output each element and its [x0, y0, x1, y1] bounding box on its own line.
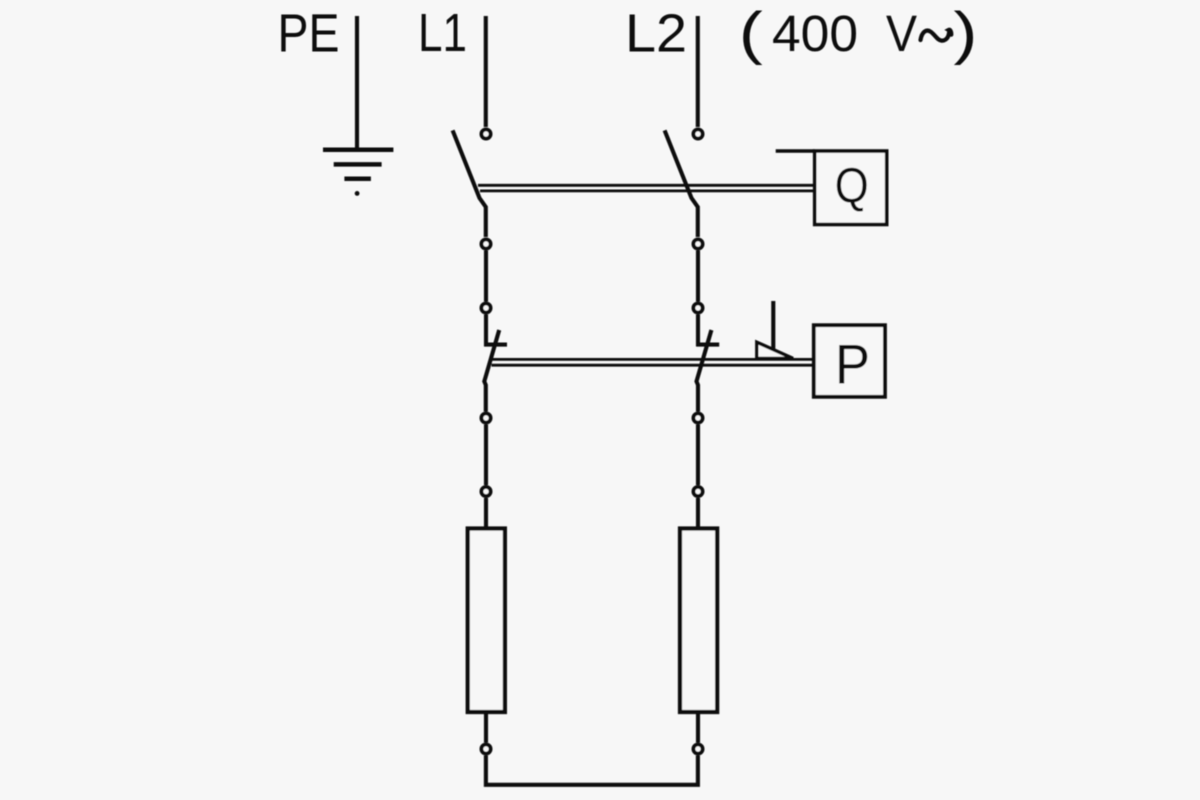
node below Q pole L1	[481, 239, 490, 248]
node L2 terminal	[693, 129, 702, 138]
switch Q pole L1 blade	[453, 130, 486, 237]
wire	[484, 425, 488, 486]
actuator stem	[771, 301, 775, 349]
wire	[696, 315, 700, 347]
svg-text:V: V	[886, 5, 917, 62]
contact P pole L1 seat bar	[484, 343, 507, 347]
svg-text:(: (	[739, 1, 763, 66]
svg-text:): )	[954, 1, 978, 66]
node below Q pole L2	[693, 239, 702, 248]
switch Q pole L2 blade	[665, 130, 698, 237]
contact P pole L1 blade	[484, 330, 499, 412]
linkage P double line	[490, 359, 812, 365]
svg-text:Q: Q	[835, 159, 869, 213]
wire Q box top extension	[776, 149, 815, 153]
wire bottom U link	[486, 756, 698, 785]
wire	[484, 315, 488, 347]
node above P pole L2	[693, 303, 702, 312]
wire	[484, 498, 488, 528]
contact P pole L2 blade	[697, 330, 712, 412]
svg-text:L2: L2	[625, 4, 687, 64]
node L1 terminal	[481, 129, 490, 138]
wire L1 drop	[484, 16, 488, 127]
node below heater E1	[481, 744, 490, 753]
box Q	[815, 151, 887, 225]
node below P pole L1	[481, 413, 490, 422]
wire	[484, 712, 488, 743]
node below heater E2	[693, 744, 702, 753]
heater element E2	[680, 529, 717, 713]
wire	[696, 498, 700, 528]
node above heater E1	[481, 487, 490, 496]
actuator triangle	[757, 342, 793, 358]
ground	[323, 150, 393, 196]
svg-text:400: 400	[772, 5, 858, 62]
svg-text:L1: L1	[418, 3, 467, 63]
node above P pole L1	[481, 303, 490, 312]
wire	[696, 251, 700, 302]
wire	[696, 712, 700, 743]
node below P pole L2	[693, 413, 702, 422]
wire PE	[355, 16, 359, 151]
node above heater E2	[693, 487, 702, 496]
contact P pole L2 seat bar	[697, 343, 720, 347]
wire	[696, 425, 700, 486]
wire	[484, 251, 488, 302]
box P	[814, 325, 885, 397]
svg-text:P: P	[835, 333, 870, 396]
heater element E1	[468, 529, 505, 713]
linkage Q double line	[478, 185, 813, 191]
wire L2 drop	[696, 16, 700, 127]
svg-text:PE: PE	[278, 4, 340, 64]
